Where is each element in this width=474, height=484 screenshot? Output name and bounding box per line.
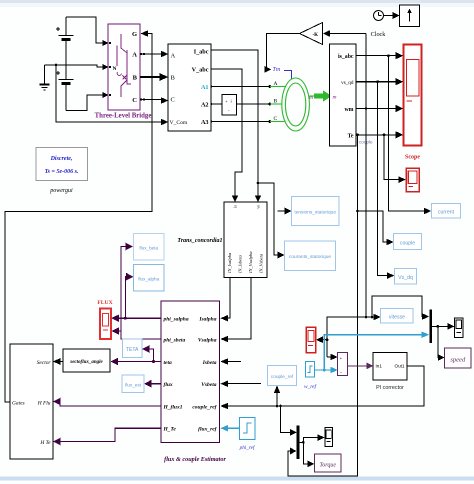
svg-text:Sector: Sector [37, 360, 52, 366]
svg-text:H_Te: H_Te [163, 427, 177, 433]
goto TETA [123, 339, 143, 358]
wire I_abc to concordia [211, 50, 258, 197]
svg-text:A1: A1 [201, 84, 209, 91]
goto vitesse [381, 309, 414, 324]
wire speed mux to scope [432, 325, 450, 327]
svg-text:TETA: TETA [126, 347, 139, 353]
svg-text:phi_ref: phi_ref [239, 444, 256, 451]
goto couple [394, 234, 422, 250]
wire dc top [66, 17, 104, 43]
scope w red small [306, 327, 316, 353]
wire Te down to couple goto [358, 211, 389, 242]
wire wm column [365, 34, 367, 318]
svg-text:vs: vs [256, 205, 261, 209]
scope main [404, 45, 422, 146]
wire H_Te to gates [59, 428, 162, 441]
svg-text:is: is [233, 205, 238, 208]
wire A3 to motor C [211, 121, 269, 123]
svg-text:Out1: Out1 [395, 364, 405, 369]
svg-text:Te: Te [348, 134, 354, 140]
goto tensions_statorique [292, 197, 340, 226]
battery V1 [56, 17, 74, 65]
meter block VI measurement [168, 44, 211, 131]
svg-text:A: A [171, 53, 176, 60]
wire bridge A to meter [140, 53, 163, 55]
svg-text:Three-Level Bridge: Three-Level Bridge [95, 113, 152, 120]
source w_ref [306, 362, 315, 378]
svg-text:H Te: H Te [39, 440, 51, 446]
wire A2 to sensor [211, 103, 222, 105]
wire clock to t [384, 15, 396, 17]
svg-text:FLUX: FLUX [97, 300, 112, 306]
scope couple small [406, 168, 419, 192]
svg-text:Vsalpha: Vsalpha [198, 338, 217, 344]
svg-text:Scope: Scope [405, 155, 420, 161]
wire into courants goto [258, 183, 280, 255]
wire w_ref to sum [315, 369, 333, 371]
svg-text:B: B [274, 99, 278, 105]
speed mux [430, 310, 433, 344]
powergui block [36, 148, 88, 181]
wire H_flux1 to gates [59, 402, 162, 406]
block sectoflux_angle [63, 349, 110, 372]
svg-text:B: B [133, 75, 138, 82]
goto courants_statorique [285, 241, 336, 271]
wire phi_ref to flux_ref [226, 427, 240, 429]
svg-text:couple_ref: couple_ref [192, 404, 217, 410]
svg-text:Torque: Torque [320, 463, 337, 469]
gates switching table block [10, 344, 53, 459]
svg-text:A2: A2 [201, 102, 209, 109]
gain K [300, 23, 323, 45]
estimator block flux couple [161, 301, 220, 443]
three-level bridge U1 [102, 24, 142, 110]
concordia transform block [224, 202, 267, 278]
goto Torque [315, 454, 342, 472]
goto current [432, 204, 461, 219]
goto Vs_dq [395, 269, 417, 285]
svg-text:Discrete,: Discrete, [50, 156, 73, 162]
svg-text:C: C [171, 97, 175, 104]
wire motor m output green arrow [314, 94, 323, 99]
wire gain to Tm [267, 34, 300, 70]
svg-text:couple: couple [400, 240, 415, 246]
meter output port dots [210, 85, 212, 87]
svg-text:powergui: powergui [49, 188, 73, 194]
svg-text:flux: flux [164, 382, 173, 388]
wire phi_salpha up to flux_alpha goto [125, 277, 128, 319]
svg-text:Vsbeta: Vsbeta [201, 382, 217, 388]
wire mux to speed goto [438, 326, 440, 357]
wire bridge B to meter [140, 76, 163, 78]
svg-text:phi_sbeta: phi_sbeta [163, 338, 186, 344]
wire into tensions goto [278, 210, 287, 212]
wire wm into sum [327, 356, 333, 358]
wire phi_salpha to FLUX scope [117, 317, 161, 319]
svg-text:V_Com: V_Com [170, 120, 188, 126]
wire vs_qd to scope [356, 81, 399, 83]
svg-text:IN_Vsalpha: IN_Vsalpha [248, 251, 253, 274]
svg-text:wm: wm [344, 107, 353, 113]
svg-text:A: A [274, 81, 278, 87]
svg-text:flux_ref: flux_ref [198, 427, 218, 433]
wire flux to flux_est [150, 383, 162, 385]
wire wm to speed mux [372, 296, 424, 317]
goto speed [445, 348, 472, 368]
svg-text:Tm: Tm [273, 67, 281, 73]
svg-text:flux & couple Estimator: flux & couple Estimator [164, 456, 226, 463]
PI corrector block [373, 353, 407, 381]
clock [374, 11, 384, 21]
wire Te to scope [356, 134, 399, 136]
scope speed small [455, 318, 464, 338]
svg-text:In1: In1 [376, 364, 383, 369]
wire phi_sbeta branch into FLUX [117, 330, 121, 332]
svg-text:+: + [340, 357, 343, 362]
svg-text:G: G [132, 31, 137, 38]
wire Te branch to couple scope [384, 135, 401, 180]
svg-text:m: m [333, 95, 337, 101]
wire V_abc to concordia [211, 69, 242, 197]
block t to workspace [400, 5, 420, 27]
wire couple_ref up to goto [276, 391, 278, 406]
svg-text:couple_ref: couple_ref [271, 374, 294, 380]
wire concordia out1 to Isalpha [226, 278, 230, 319]
svg-text:sectoflux_angle: sectoflux_angle [69, 360, 103, 365]
wire vs_qd down to Vs_dq goto [378, 82, 389, 276]
top window band [0, 0, 474, 3]
svg-text:flux_beta: flux_beta [139, 246, 158, 251]
svg-text:vs_qd: vs_qd [341, 80, 354, 86]
wire wm to gain [328, 33, 366, 35]
svg-text:current: current [438, 209, 455, 215]
wire Te down to torque feedback bottom [288, 135, 358, 476]
svg-text:H_flux1: H_flux1 [163, 404, 183, 410]
wire V_Com neutral [55, 64, 58, 67]
torque mux [297, 426, 300, 460]
bottom window band [0, 477, 474, 481]
svg-text:C: C [132, 97, 137, 104]
wire wm to scope [356, 108, 399, 110]
wire concordia out4 to Vsbeta [226, 383, 261, 385]
wire teta out [116, 361, 161, 363]
wire bridge C to meter [140, 99, 163, 101]
wire is_abc down to current goto [388, 56, 426, 211]
goto flux_alpha [134, 265, 165, 292]
wire Tm blue elbow [284, 71, 292, 80]
svg-text:speed: speed [450, 357, 466, 364]
wire dc mid [45, 65, 105, 67]
scope FLUX xy [100, 309, 111, 340]
wire sectoflux to gates sector [59, 361, 64, 363]
wire gates to bridge G feedback [5, 34, 152, 403]
wire PI out to couple_ref line [226, 366, 424, 406]
svg-text:Vs_dq: Vs_dq [398, 275, 413, 281]
svg-text:IN_Isalpha: IN_Isalpha [227, 252, 232, 274]
scope torque small [325, 428, 333, 447]
wire sum to PI [348, 365, 369, 367]
wire branch to w scope [321, 339, 327, 341]
wire concordia out2 to Isbeta [226, 361, 241, 363]
svg-text:N: N [113, 66, 117, 72]
svg-text:IN_Isbeta: IN_Isbeta [238, 255, 243, 274]
svg-text:PI corrector: PI corrector [376, 385, 404, 391]
wire teta up to TETA goto [148, 349, 154, 362]
svg-text:teta: teta [164, 360, 172, 366]
wire phi_sbeta to FLUX scope and flux_beta [121, 247, 161, 340]
wire couple_ref down to torque mux [281, 406, 293, 432]
sensor block i+- [222, 95, 237, 116]
wire dc bottom [66, 95, 104, 111]
wire sensor to motor B [237, 103, 270, 105]
battery V2 [56, 65, 74, 111]
goto flux_beta [134, 234, 165, 261]
svg-text:flux_alpha: flux_alpha [138, 277, 159, 282]
wire wm to vitesse and PI branch [327, 317, 376, 357]
svg-text:courants_statorique: courants_statorique [289, 254, 331, 260]
svg-text:flux_est: flux_est [125, 383, 142, 388]
svg-text:-: - [340, 370, 342, 376]
svg-text:Gates: Gates [12, 401, 25, 407]
source phi_ref step [240, 418, 256, 440]
ground [40, 65, 50, 90]
goto flux_est [122, 375, 144, 393]
demux machines measurement [330, 44, 357, 146]
goto couple_ref [268, 366, 297, 386]
wire mux out to Torque goto [303, 442, 309, 463]
svg-text:Trans_concordia1: Trans_concordia1 [177, 238, 222, 244]
wire concordia out3 to Vsalpha [226, 278, 251, 340]
svg-text:Isbeta: Isbeta [202, 360, 217, 366]
svg-text:vitesse: vitesse [389, 314, 405, 320]
svg-text:A3: A3 [201, 119, 209, 126]
svg-text:m: m [309, 95, 313, 101]
wire A1 to motor A [211, 86, 269, 88]
wire torque mux out [300, 438, 320, 443]
svg-text:B: B [171, 75, 176, 82]
svg-text:Ts = 5e-006 s.: Ts = 5e-006 s. [45, 169, 79, 175]
wire w_ref to speed mux cyan [324, 335, 423, 370]
svg-text:w_ref: w_ref [304, 383, 318, 390]
wire is_abc to scope [356, 55, 399, 57]
svg-text:Isalpha: Isalpha [198, 317, 216, 323]
svg-text:-K: -K [312, 33, 318, 38]
svg-text:phi_salpha: phi_salpha [163, 317, 189, 323]
sum block [338, 353, 348, 376]
motor asynchronous machine [270, 78, 314, 131]
svg-text:Clock: Clock [371, 31, 387, 38]
svg-text:IN_Vsbeta: IN_Vsbeta [259, 253, 264, 274]
svg-text:is_abc: is_abc [338, 54, 354, 60]
svg-text:I_abc: I_abc [194, 49, 209, 56]
svg-text:A: A [132, 52, 137, 59]
svg-text:tensions_statorique: tensions_statorique [294, 210, 336, 216]
svg-text:C: C [274, 116, 278, 122]
svg-text:H Flu: H Flu [37, 401, 51, 407]
svg-text:V_abc: V_abc [192, 67, 209, 74]
